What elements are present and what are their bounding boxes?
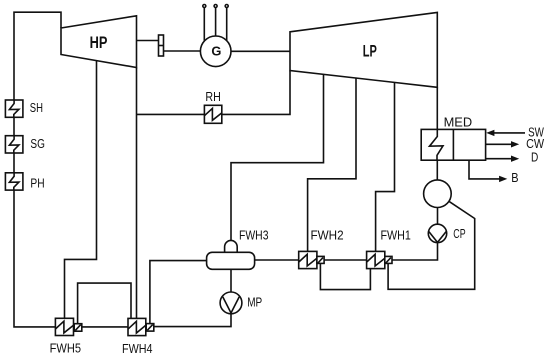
svg-text:CP: CP	[453, 227, 465, 241]
arrowheads	[486, 130, 519, 182]
deaerator FWH3 dome	[225, 240, 238, 252]
wire LP extraction 3 to FWH1	[376, 82, 395, 251]
node FWH2 drain connector	[317, 256, 324, 263]
boiler preheater PH	[5, 173, 23, 190]
svg-text:SG: SG	[30, 137, 45, 151]
wire FWH3 to MP	[230, 269, 232, 292]
svg-text:SH: SH	[30, 101, 43, 115]
wire FWH4 drain loop to FWH5	[78, 283, 131, 324]
deaerator FWH3 tank	[207, 252, 255, 269]
wire HP extraction to FWH5	[65, 61, 97, 319]
wire FWH2 drain to FWH1	[320, 263, 370, 289]
arrow B	[499, 176, 507, 182]
heater FWH4	[128, 318, 146, 335]
wire CW outlet line	[486, 143, 512, 145]
arrow CW	[511, 141, 519, 147]
wire coupling to generator	[164, 50, 201, 52]
svg-text:MED: MED	[444, 115, 473, 129]
wire SW inlet line	[493, 132, 525, 134]
wire FWH3 outlet to FWH4 square	[150, 261, 207, 324]
node coupling	[159, 35, 164, 56]
wire FWH2 to FWH3 feed line	[254, 259, 298, 261]
svg-text:FWH3: FWH3	[239, 229, 269, 243]
svg-text:RH: RH	[205, 90, 220, 104]
node FWH1 drain connector	[385, 256, 392, 263]
node FWH5 feed connector	[74, 324, 82, 332]
wire LP exhaust to MED	[436, 87, 438, 129]
wire boiler feed column	[14, 12, 61, 327]
arrow D	[511, 156, 519, 162]
svg-text:FWH1: FWH1	[381, 229, 411, 243]
wire MED to hotwell	[436, 160, 438, 180]
wire D outlet line	[486, 158, 512, 160]
wire generator terminal leads	[203, 8, 205, 41]
svg-text:FWH5: FWH5	[50, 342, 81, 356]
wire FWH1 drain to hotwell	[388, 201, 475, 289]
boiler steam generator SG	[5, 136, 23, 153]
svg-text:CW: CW	[526, 137, 544, 151]
wire B blowdown line	[469, 160, 500, 179]
turbine LP	[290, 12, 437, 87]
heater FWH5	[55, 318, 73, 335]
boiler superheater SH	[5, 100, 23, 117]
heater FWH1	[367, 251, 385, 268]
svg-text:MP: MP	[247, 296, 262, 310]
svg-text:FWH4: FWH4	[122, 342, 153, 356]
svg-text:LP: LP	[363, 43, 377, 61]
generator G	[200, 36, 231, 67]
wire LP extraction 1 to FWH3	[231, 74, 324, 241]
pump MP	[220, 292, 242, 314]
wire FWH1 to FWH2 feed line	[324, 259, 367, 261]
desalination unit MED	[421, 129, 485, 160]
pump CP	[428, 224, 446, 242]
wire LP extraction 2 to FWH2	[308, 78, 356, 251]
svg-text:FWH2: FWH2	[311, 229, 344, 243]
svg-text:D: D	[531, 150, 538, 164]
wire HP exhaust down to FWH4	[136, 68, 138, 319]
wire cold reheat HP to RH	[137, 113, 206, 115]
wire generator to LP shaft	[231, 50, 290, 52]
turbine HP	[61, 16, 137, 68]
wire MP discharge to FWH4	[154, 313, 231, 327]
wire hot reheat RH to LP	[222, 71, 291, 115]
wire hotwell to CP	[437, 208, 439, 225]
condenser hotwell	[424, 180, 452, 208]
svg-text:G: G	[211, 44, 221, 59]
reheater RH	[204, 105, 221, 123]
wire CP discharge to FWH1	[392, 242, 438, 260]
svg-text:HP: HP	[90, 34, 108, 52]
wire HP shaft to coupling	[137, 40, 159, 42]
wire FWH4 to FWH5 feed line	[82, 326, 128, 328]
heater FWH2	[299, 251, 317, 268]
svg-text:B: B	[511, 171, 518, 185]
svg-text:PH: PH	[30, 177, 44, 191]
arrow SW	[486, 130, 494, 136]
node FWH4 feed connector	[146, 324, 154, 332]
